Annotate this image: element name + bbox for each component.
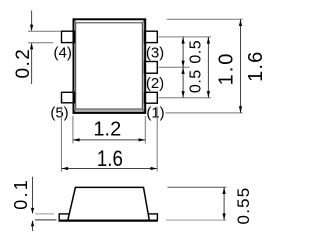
svg-text:1.2: 1.2 xyxy=(93,119,121,141)
svg-text:0.1: 0.1 xyxy=(11,178,31,210)
svg-text:0.5: 0.5 xyxy=(187,69,204,93)
svg-text:0.5: 0.5 xyxy=(187,40,204,64)
svg-text:1.6: 1.6 xyxy=(97,146,123,171)
svg-text:0.55: 0.55 xyxy=(234,187,253,225)
svg-text:(4): (4) xyxy=(54,45,72,62)
svg-text:0.2: 0.2 xyxy=(13,48,34,79)
svg-text:(3): (3) xyxy=(146,44,164,61)
svg-text:1.0: 1.0 xyxy=(216,52,238,86)
svg-text:(5): (5) xyxy=(50,104,68,121)
svg-text:1.6: 1.6 xyxy=(245,50,267,81)
svg-text:(2): (2) xyxy=(146,75,164,92)
svg-text:(1): (1) xyxy=(146,104,164,121)
